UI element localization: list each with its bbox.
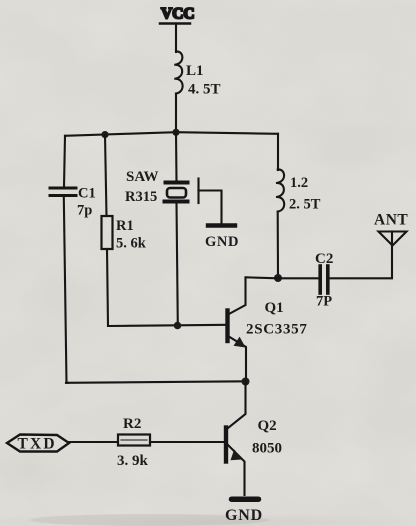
SAW case electrode bbox=[197, 179, 199, 204]
svg-text:8050: 8050 bbox=[252, 441, 282, 457]
svg-text:L1: L1 bbox=[186, 63, 204, 79]
wire top bus bbox=[65, 132, 278, 136]
svg-text:GND: GND bbox=[225, 507, 263, 524]
svg-text:Q1: Q1 bbox=[265, 300, 284, 316]
wire VCC to L1 bbox=[175, 24, 177, 53]
Q1 emitter bbox=[228, 336, 246, 382]
svg-text:C1: C1 bbox=[78, 186, 96, 202]
label SAW R315 bbox=[125, 169, 159, 205]
wire R1 bottom to base wire bbox=[107, 249, 111, 326]
wire Q1 base bbox=[108, 325, 226, 326]
label 1.2 2.5T bbox=[289, 175, 321, 213]
svg-text:ANT: ANT bbox=[374, 212, 408, 229]
ground (SAW case) bbox=[208, 223, 235, 227]
Q1 base bar bbox=[225, 311, 229, 342]
wire C2 to antenna bbox=[330, 245, 392, 278]
capacitor C1 bbox=[50, 188, 76, 196]
Q2 collector bbox=[228, 382, 246, 429]
svg-text:GND: GND bbox=[205, 234, 239, 250]
Q2 emitter bbox=[227, 444, 245, 495]
label C1 7p bbox=[77, 186, 96, 219]
svg-text:R1: R1 bbox=[116, 218, 134, 234]
node junction dot coil/C2 bbox=[274, 274, 282, 282]
svg-text:R315: R315 bbox=[125, 189, 157, 205]
node junction dot R1/bus bbox=[101, 131, 108, 138]
node VCC label bbox=[160, 6, 195, 24]
resistor R2 bbox=[118, 435, 150, 446]
wire bus corner to coil bbox=[277, 134, 279, 170]
label ANT bbox=[374, 212, 408, 229]
capacitor C2 bbox=[320, 266, 328, 293]
wire collector node bus bbox=[246, 277, 319, 278]
Q1 emitter arrow bbox=[234, 337, 246, 348]
resistor R1 bbox=[102, 216, 113, 249]
svg-text:VCC: VCC bbox=[161, 6, 195, 23]
svg-text:TXD: TXD bbox=[18, 436, 57, 453]
wire base Q2 bbox=[150, 441, 225, 443]
svg-text:1.2: 1.2 bbox=[290, 175, 308, 191]
svg-text:Q2: Q2 bbox=[258, 418, 277, 434]
wire coil to collector node bbox=[277, 212, 279, 279]
label R1 value 5.6k bbox=[116, 218, 147, 252]
svg-text:5. 6k: 5. 6k bbox=[116, 236, 147, 252]
wire bus corner down to C1 bbox=[64, 136, 65, 187]
inductor 1.2/2.5T bbox=[276, 169, 284, 211]
Q2 emitter arrow bbox=[231, 449, 243, 460]
svg-text:7P: 7P bbox=[316, 294, 332, 310]
wire SAW bottom to Q1 base node bbox=[177, 204, 178, 326]
label C2 7P bbox=[315, 251, 333, 310]
label GND bbox=[205, 234, 239, 250]
label Q2 8050 bbox=[252, 418, 282, 457]
svg-text:3. 9k: 3. 9k bbox=[117, 453, 149, 469]
label GND bottom bbox=[225, 507, 263, 524]
SAW resonator R315 bbox=[165, 183, 188, 202]
label R2 value 3.9k bbox=[117, 416, 149, 469]
label L1 value 4.5T bbox=[186, 63, 221, 98]
wire R1 top bbox=[105, 135, 107, 216]
svg-text:7p: 7p bbox=[77, 203, 92, 219]
node junction dot L1/bus bbox=[172, 129, 179, 136]
wire L1 to top bus bbox=[175, 94, 177, 133]
wire electrode to GND bbox=[199, 191, 222, 225]
node junction dot SAW/base bbox=[174, 322, 182, 330]
label Q1 2SC3357 bbox=[246, 300, 308, 338]
wire bus to SAW bbox=[175, 132, 178, 181]
label TXD bbox=[18, 436, 57, 453]
Q2 base bar bbox=[224, 428, 228, 462]
wire emitter bus bbox=[66, 381, 246, 383]
inductor L1 bbox=[174, 51, 182, 93]
port TXD bbox=[7, 435, 69, 452]
transistor Q2 8050 bbox=[226, 382, 246, 496]
wire TXD to R2 bbox=[69, 441, 118, 443]
svg-text:2SC3357: 2SC3357 bbox=[246, 322, 308, 338]
wire C1 down left bus bbox=[64, 197, 68, 383]
svg-text:2. 5T: 2. 5T bbox=[289, 197, 321, 213]
svg-text:4. 5T: 4. 5T bbox=[188, 82, 221, 98]
antenna ANT bbox=[379, 232, 407, 246]
Q1 collector bbox=[228, 278, 246, 315]
transistor Q1 2SC3357 bbox=[228, 278, 247, 382]
node junction dot emitter/Q2 bbox=[242, 378, 250, 386]
svg-text:R2: R2 bbox=[123, 416, 141, 432]
ground (Q2 emitter) bbox=[232, 496, 259, 502]
svg-text:C2: C2 bbox=[315, 251, 333, 267]
svg-text:SAW: SAW bbox=[126, 169, 159, 185]
